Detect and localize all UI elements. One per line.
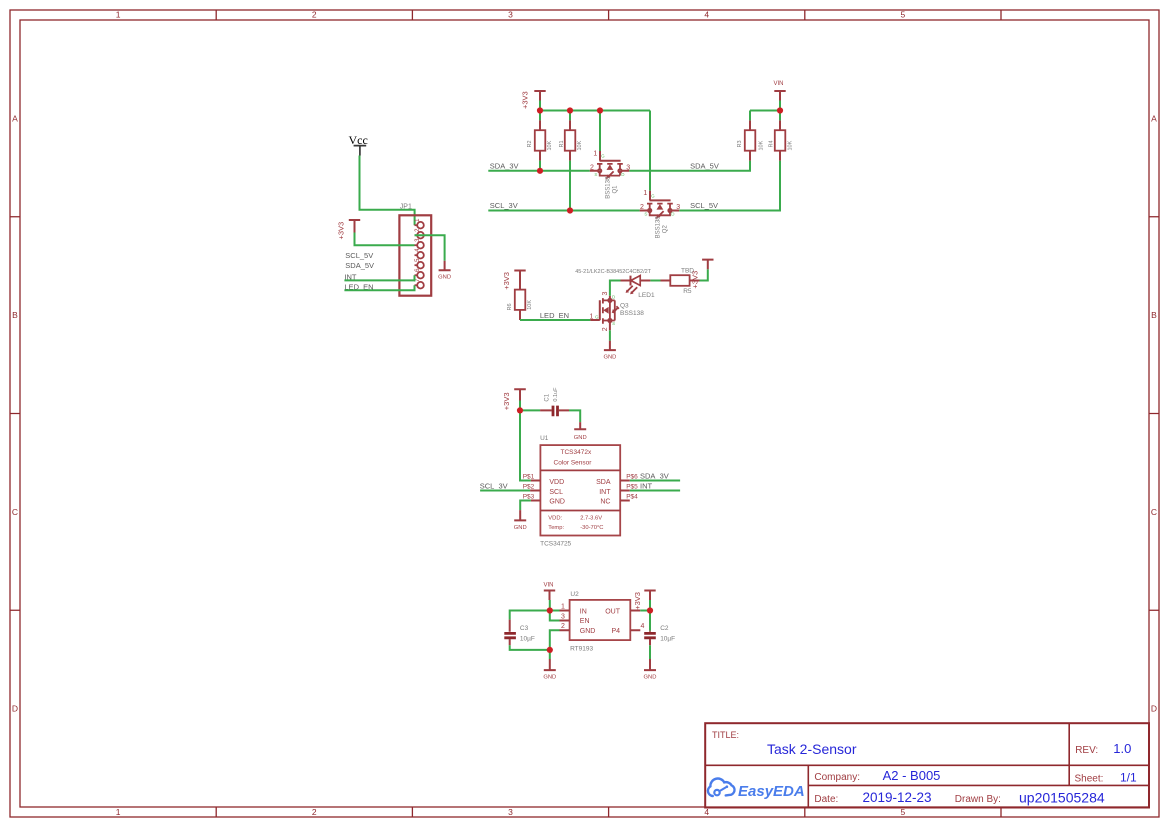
net LED_EN (gate) — [540, 311, 569, 320]
LED LED1 — [575, 269, 655, 299]
svg-text:10K: 10K — [547, 140, 553, 150]
wire R2 to SDA_3V — [539, 161, 541, 171]
svg-text:C3: C3 — [520, 625, 529, 632]
svg-text:LED_EN: LED_EN — [540, 311, 569, 320]
svg-text:GND: GND — [438, 275, 451, 281]
svg-text:VIN: VIN — [543, 582, 553, 588]
svg-text:Q3: Q3 — [620, 303, 629, 310]
ground GND (U1) — [514, 510, 527, 531]
svg-text:REV:: REV: — [1075, 745, 1098, 756]
ground GND (U2) — [543, 659, 556, 681]
wire +3V3 to JP1 pin3 — [355, 233, 415, 246]
net SDA_5V (JP1 pin5) — [345, 261, 374, 270]
svg-text:C: C — [1151, 507, 1157, 517]
svg-text:R2: R2 — [527, 140, 533, 147]
svg-text:INT: INT — [640, 482, 653, 491]
svg-text:Drawn By:: Drawn By: — [955, 794, 1001, 805]
power +3V3 (JP1) — [337, 220, 361, 240]
svg-text:SDA_5V: SDA_5V — [345, 261, 374, 270]
svg-text:R3: R3 — [737, 140, 743, 147]
svg-text:45-21/LK2C-B38452C4CB2/2T: 45-21/LK2C-B38452C4CB2/2T — [575, 269, 651, 275]
wire Q3 drain to LED — [610, 281, 621, 296]
junction node SDA_3V/R2 — [537, 168, 543, 174]
svg-text:3: 3 — [602, 292, 609, 296]
svg-text:SDA_5V: SDA_5V — [690, 161, 719, 170]
net SDA_3V — [490, 161, 519, 170]
title block — [705, 723, 1149, 807]
svg-text:2: 2 — [312, 807, 317, 817]
svg-text:GND: GND — [543, 675, 556, 681]
svg-text:1: 1 — [561, 603, 565, 610]
ground GND (Q3) — [603, 330, 616, 360]
svg-text:OUT: OUT — [605, 609, 621, 616]
svg-text:GND: GND — [549, 498, 565, 505]
resistor R2 10K — [527, 120, 553, 160]
svg-text:P$2: P$2 — [523, 483, 535, 490]
svg-text:U1: U1 — [540, 435, 549, 442]
net SDA_3V (U1) — [640, 471, 669, 480]
svg-text:-30-70°C: -30-70°C — [580, 525, 603, 531]
svg-text:RT9193: RT9193 — [570, 646, 593, 653]
svg-text:B: B — [12, 310, 18, 320]
svg-text:S: S — [594, 172, 597, 177]
svg-text:2: 2 — [602, 327, 609, 331]
svg-text:G: G — [601, 154, 605, 159]
junction node +3V3/C1 — [517, 407, 523, 413]
svg-text:BSS138: BSS138 — [620, 310, 644, 317]
svg-text:GND: GND — [514, 525, 527, 531]
svg-text:+3V3: +3V3 — [502, 392, 511, 410]
svg-text:SCL_3V: SCL_3V — [480, 482, 508, 491]
wire SDA_5V — [629, 161, 750, 171]
svg-text:TITLE:: TITLE: — [712, 730, 739, 740]
svg-text:2: 2 — [640, 204, 644, 211]
net LED_EN (JP1 pin7) — [344, 282, 373, 291]
svg-text:1/1: 1/1 — [1120, 771, 1137, 785]
svg-text:Task 2-Sensor: Task 2-Sensor — [767, 741, 857, 757]
ground GND (C2) — [644, 659, 657, 681]
svg-text:TCS34725: TCS34725 — [540, 540, 571, 547]
svg-text:Date:: Date: — [814, 794, 838, 805]
svg-text:S: S — [612, 321, 615, 326]
svg-text:D: D — [1151, 704, 1157, 714]
svg-text:2: 2 — [561, 623, 565, 630]
svg-text:R4: R4 — [769, 140, 775, 147]
transistor Q3 BSS138 — [589, 292, 644, 332]
svg-text:+3V3: +3V3 — [691, 271, 700, 289]
power +3V3 (top rail) — [520, 91, 545, 109]
wire R1 to SCL_3V — [569, 161, 571, 211]
wire INT to JP1 pin6 — [344, 275, 414, 280]
power +3V3 (R6) — [502, 271, 526, 290]
EasyEDA logo — [708, 779, 805, 800]
wire U1 P$3 to GND — [520, 501, 531, 511]
wire SCL_5V — [679, 161, 780, 211]
svg-text:+3V3: +3V3 — [502, 272, 511, 290]
transistor Q1 BSS138 — [590, 150, 630, 198]
power VIN (U2) — [543, 582, 555, 600]
svg-text:SCL: SCL — [549, 489, 563, 496]
svg-text:S: S — [644, 212, 647, 217]
net SCL_5V — [690, 201, 718, 210]
svg-text:Temp:: Temp: — [548, 525, 564, 531]
net SCL_3V (U1) — [480, 482, 508, 491]
wire +3V3 rail — [540, 101, 650, 191]
wire VIN node — [510, 600, 560, 621]
svg-text:A2 - B005: A2 - B005 — [883, 768, 941, 783]
ground GND (C1) — [574, 422, 587, 441]
svg-text:BSS138: BSS138 — [656, 216, 662, 239]
resistor R5 TBD — [661, 268, 700, 295]
svg-text:EN: EN — [580, 618, 590, 625]
svg-text:R6: R6 — [507, 303, 513, 310]
svg-text:Company:: Company: — [814, 772, 860, 783]
wire OUT node — [640, 600, 650, 631]
svg-text:GND: GND — [574, 435, 587, 441]
transistor Q2 BSS138 — [640, 190, 681, 238]
svg-text:U2: U2 — [570, 591, 579, 598]
wire C3 to GND node — [510, 645, 550, 650]
svg-text:5: 5 — [901, 10, 906, 20]
svg-text:up201505284: up201505284 — [1019, 790, 1105, 806]
wire LED_EN to JP1 pin7 — [344, 285, 414, 290]
svg-text:3: 3 — [508, 10, 513, 20]
net SDA_5V — [690, 161, 719, 170]
wire SCL_3V to U1 — [480, 490, 530, 492]
svg-text:TCS3472x: TCS3472x — [561, 449, 592, 456]
svg-text:2: 2 — [590, 164, 594, 171]
svg-text:1: 1 — [116, 10, 121, 20]
svg-text:SCL_5V: SCL_5V — [690, 201, 718, 210]
svg-text:2: 2 — [312, 10, 317, 20]
svg-text:10K: 10K — [527, 300, 533, 310]
wire C1 to GND — [569, 410, 580, 422]
svg-text:10µF: 10µF — [520, 635, 535, 642]
svg-text:P$4: P$4 — [626, 494, 638, 501]
wire C2 to GND — [649, 645, 651, 659]
svg-text:P$1: P$1 — [523, 473, 535, 480]
svg-text:+3V3: +3V3 — [520, 91, 529, 109]
svg-text:10K: 10K — [577, 140, 583, 150]
wire Vcc to JP1 pin1 — [360, 156, 415, 226]
svg-text:C: C — [12, 507, 18, 517]
svg-text:JP1: JP1 — [400, 204, 412, 211]
svg-text:IN: IN — [580, 609, 587, 616]
svg-text:A: A — [12, 113, 18, 123]
junction node SCL_3V/R1 — [567, 207, 573, 213]
svg-text:4: 4 — [641, 623, 645, 630]
svg-text:GND: GND — [603, 354, 616, 360]
svg-text:SCL_3V: SCL_3V — [490, 201, 518, 210]
svg-text:1: 1 — [116, 807, 121, 817]
svg-text:1: 1 — [593, 150, 597, 157]
connector JP1 — [399, 204, 431, 296]
svg-text:INT: INT — [599, 489, 611, 496]
svg-text:GND: GND — [580, 628, 596, 635]
ground GND (JP1) — [438, 261, 451, 281]
wire R5 to +3V3 — [700, 269, 708, 280]
svg-text:1: 1 — [643, 190, 647, 197]
svg-text:+3V3: +3V3 — [633, 592, 642, 610]
wire LED to R5 — [650, 280, 660, 282]
power VIN (top) — [773, 81, 785, 101]
svg-text:G: G — [651, 193, 655, 198]
resistor R1 10K — [559, 120, 583, 160]
capacitor C1 0.1uF — [540, 387, 569, 416]
svg-text:C1: C1 — [545, 393, 551, 401]
resistor R3 10K — [737, 120, 765, 160]
power +3V3 (U1) — [502, 389, 526, 410]
resistor R4 10K — [769, 120, 794, 160]
wire U2 pin2 to GND node — [550, 630, 560, 659]
svg-text:P4: P4 — [611, 628, 620, 635]
net SCL_3V (top) — [490, 201, 518, 210]
svg-text:G: G — [595, 315, 599, 320]
svg-text:3: 3 — [508, 807, 513, 817]
svg-text:P$5: P$5 — [626, 483, 638, 490]
svg-text:EasyEDA: EasyEDA — [738, 783, 805, 800]
svg-text:Sheet:: Sheet: — [1075, 774, 1104, 785]
svg-text:R1: R1 — [559, 140, 565, 147]
capacitor C2 10uF — [644, 625, 675, 645]
svg-text:1: 1 — [589, 314, 593, 321]
wire SCL_3V — [488, 210, 639, 212]
svg-text:Q1: Q1 — [612, 185, 618, 194]
svg-text:SDA: SDA — [596, 479, 611, 486]
net INT (JP1 pin6) — [344, 272, 357, 281]
IC U2 RT9193 — [560, 591, 645, 653]
svg-text:+3V3: +3V3 — [337, 222, 346, 240]
svg-text:NC: NC — [600, 498, 610, 505]
svg-text:3: 3 — [561, 613, 565, 620]
svg-text:1.0: 1.0 — [1113, 741, 1131, 756]
capacitor C3 10uF — [504, 620, 535, 646]
wire +3V3 node — [520, 401, 540, 481]
svg-text:2.7-3.6V: 2.7-3.6V — [580, 516, 602, 522]
resistor R6 10K — [507, 290, 533, 320]
junction node OUT/C2 — [647, 607, 653, 613]
svg-text:VIN: VIN — [773, 81, 783, 87]
power +3V3 (R5) — [691, 260, 714, 289]
junction node rail dots — [537, 107, 603, 113]
svg-text:BSS138: BSS138 — [606, 176, 612, 199]
wire VIN to R3/R4 — [750, 101, 780, 121]
wire SDA_3V (U1) — [630, 480, 680, 482]
svg-text:Q2: Q2 — [662, 225, 668, 234]
power +3V3 (U2) — [633, 591, 656, 610]
svg-text:10µF: 10µF — [660, 635, 675, 642]
junction node VIN/C3 — [547, 607, 553, 613]
IC U1 TCS3472x — [523, 435, 638, 548]
wire INT (U1) — [630, 490, 680, 492]
svg-text:SDA_3V: SDA_3V — [490, 161, 519, 170]
svg-text:P$3: P$3 — [523, 494, 535, 501]
junction node GND/C3 — [547, 647, 553, 653]
svg-text:C2: C2 — [660, 625, 669, 632]
svg-text:10K: 10K — [759, 140, 765, 150]
net INT (U1) — [640, 482, 653, 491]
junction node VIN rail — [777, 107, 783, 113]
svg-text:10K: 10K — [788, 140, 794, 150]
power Vcc — [349, 133, 368, 156]
svg-text:SCL_5V: SCL_5V — [345, 251, 373, 260]
svg-text:LED1: LED1 — [638, 292, 655, 299]
svg-text:VDD:: VDD: — [548, 516, 562, 522]
svg-text:2019-12-23: 2019-12-23 — [863, 790, 932, 805]
wire JP1 pin2 to GND — [415, 235, 445, 261]
svg-text:GND: GND — [644, 675, 657, 681]
net SCL_5V (JP1 pin4) — [345, 251, 373, 260]
svg-text:SDA_3V: SDA_3V — [640, 471, 669, 480]
wire SDA_3V — [488, 170, 590, 172]
svg-text:P$6: P$6 — [626, 473, 638, 480]
svg-text:A: A — [1151, 113, 1157, 123]
wire LED_EN to Q3 gate — [520, 319, 590, 321]
svg-text:D: D — [12, 704, 18, 714]
svg-text:4: 4 — [704, 10, 709, 20]
svg-text:Color Sensor: Color Sensor — [554, 459, 593, 466]
svg-text:B: B — [1151, 310, 1157, 320]
svg-text:0.1uF: 0.1uF — [553, 387, 559, 402]
svg-text:VDD: VDD — [549, 479, 564, 486]
